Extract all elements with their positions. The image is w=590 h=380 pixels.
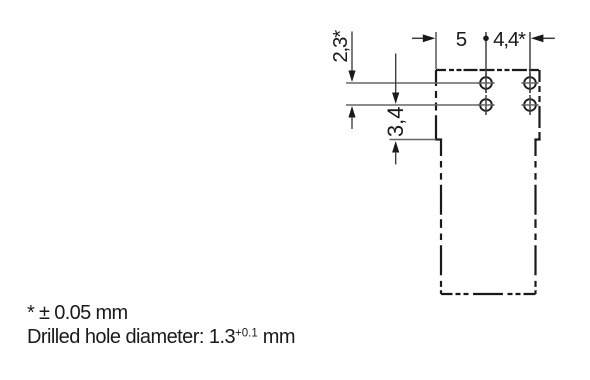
dimension dot at shared point [483, 36, 489, 42]
dimension 2,3*: lower arrow (up) [348, 106, 355, 129]
svg-text:3,4: 3,4 [383, 107, 408, 138]
outline right lower edge [534, 140, 536, 295]
drilled hole bottom-left [480, 99, 492, 111]
outline right step [534, 138, 540, 140]
dimension 4,4*: arrow pointing left at right hole axis [531, 34, 555, 42]
extension line left edge (above outline) [435, 32, 437, 69]
outline left lower edge [440, 140, 442, 295]
outline left upper edge [435, 70, 437, 140]
dimension 5: arrow pointing right at left edge [412, 34, 435, 42]
svg-text:2,3*: 2,3* [329, 30, 352, 63]
center line hole column right [529, 32, 531, 93]
hole crosshairs horizontal [478, 83, 539, 105]
extension line hole row 2 [346, 104, 495, 106]
crosshair horizontal right hole row 1 [522, 82, 539, 84]
extension line step [390, 139, 437, 141]
drilled hole top-left [480, 77, 492, 89]
extension line hole row 1 [346, 82, 495, 84]
drilled hole top-right [524, 77, 536, 89]
outline bottom edge [441, 293, 536, 295]
svg-text:* ± 0.05 mm: * ± 0.05 mm [27, 302, 128, 324]
dimension 3,4: lower arrow (up) [392, 141, 399, 165]
drilled hole bottom-right [524, 99, 536, 111]
svg-text:5: 5 [456, 28, 467, 51]
dimension 2,3*: upper arrow (down) [348, 32, 355, 83]
center line hole column left [485, 32, 487, 93]
svg-text:4,4*: 4,4* [493, 28, 526, 51]
outline right upper edge [538, 70, 540, 140]
crosshair horizontal right hole row 2 [522, 104, 539, 106]
outline left step [435, 138, 442, 140]
outline top edge (dashed) [436, 69, 540, 71]
hole crosshairs vertical [486, 73, 530, 115]
dimension 3,4: upper arrow (down) [392, 54, 399, 105]
